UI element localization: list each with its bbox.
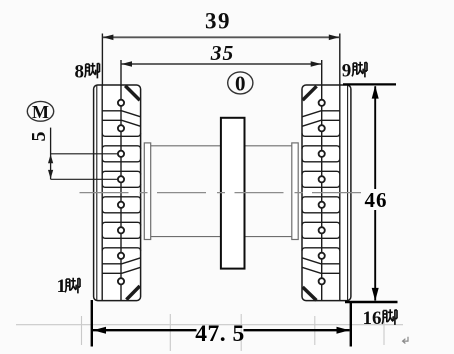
right flange bottom corner mark [303, 287, 317, 300]
dimension 47.5 text [195, 321, 245, 347]
left pin connector line [120, 85, 122, 301]
label pin 9 [342, 61, 367, 82]
dimension 46 text [365, 188, 388, 212]
svg-text:1: 1 [57, 276, 67, 297]
dimension 5 text [28, 132, 50, 142]
table gridline vertical x=241.2 [240, 314, 242, 351]
right flange body [302, 85, 351, 301]
table gridline vertical x=384.0 [383, 316, 385, 345]
right flange top corner mark [303, 86, 317, 100]
right pin connector line [321, 85, 323, 301]
svg-text:M: M [32, 102, 49, 122]
table gridline horizontal [16, 324, 403, 326]
svg-text:16: 16 [363, 308, 382, 329]
right flange pin holes [319, 100, 325, 285]
winding tube bottom line [151, 236, 292, 238]
left flange top corner mark [125, 86, 140, 100]
table gridline vertical x=81.5 [81, 316, 83, 345]
svg-text:47. 5: 47. 5 [195, 321, 245, 347]
balloon O [228, 72, 253, 96]
center partition flange [221, 118, 245, 269]
svg-text:46: 46 [365, 188, 388, 212]
svg-text:0: 0 [235, 72, 246, 96]
centerline (dashed axis) [80, 192, 367, 194]
dimension 5 lines [48, 128, 118, 180]
label pin 1 [57, 276, 81, 297]
svg-text:8: 8 [75, 62, 85, 83]
left flange bottom corner mark [126, 286, 139, 300]
left flange body [94, 85, 141, 301]
svg-text:5: 5 [28, 132, 50, 142]
balloon M [27, 101, 53, 121]
label pin 8 [75, 62, 100, 83]
right tube rim [292, 143, 298, 240]
dimension 35 text [210, 41, 235, 65]
label pin 16 [363, 308, 398, 329]
svg-text:9: 9 [342, 61, 352, 82]
winding tube top line [151, 145, 292, 147]
table gridline vertical x=170.3 [169, 314, 171, 351]
dimension 39 text [205, 9, 231, 34]
svg-text:39: 39 [205, 9, 231, 34]
paragraph return mark [403, 337, 408, 344]
dimension 47.5 lines [92, 300, 351, 347]
dimension 39 lines [102, 34, 339, 87]
table gridline vertical x=314.8 [314, 316, 316, 345]
dimension 46 lines [343, 84, 398, 302]
left flange pin holes [118, 100, 124, 285]
left tube rim [144, 143, 150, 240]
svg-text:35: 35 [210, 41, 235, 65]
dimension 35 lines [121, 60, 322, 86]
